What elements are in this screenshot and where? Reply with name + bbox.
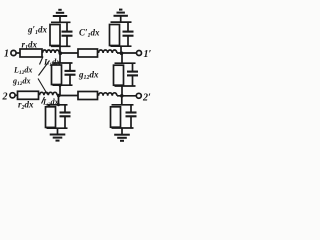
wire stub line2 right node down to shunt bottom-right (121, 96, 123, 105)
shunt block top-right: bottom bar (111, 45, 132, 47)
shunt block top-left: bottom bar (51, 45, 71, 47)
shunt block top-left: top bar (51, 21, 71, 23)
wire line 2 middle (57, 95, 78, 97)
joint dot (59, 84, 62, 87)
wire stub line1 right node down to coupling block right (121, 53, 123, 63)
shunt block bottom-left: top bar (47, 104, 68, 106)
inductor line1 second section (99, 50, 117, 53)
coupling block right: top bar (115, 62, 136, 64)
inductor L1dx (43, 50, 60, 53)
ground bottom-left (50, 128, 66, 140)
resistor r1dx (20, 49, 42, 57)
terminal 2 (10, 93, 18, 98)
resistor r2dx (18, 91, 39, 99)
coupling block right: bottom bar (115, 85, 136, 87)
wire stub to line 1 right node (120, 46, 122, 53)
terminal 2' (136, 93, 141, 98)
svg-text:1: 1 (4, 49, 9, 60)
joint dot (57, 103, 60, 106)
node on line 1 right (120, 51, 124, 55)
svg-text:L2dx: L2dx (42, 98, 59, 109)
resistor line1 second section (78, 49, 98, 57)
resistor g12 (vertical box) (52, 65, 62, 85)
node on line 1 left (59, 51, 63, 55)
terminal 1' (137, 51, 142, 56)
inductor L2dx (40, 92, 58, 95)
shunt block top-right: top bar (111, 21, 132, 23)
capacitor bottom-right (126, 105, 137, 128)
leader slash for L2dx label (42, 97, 45, 104)
wire line 1 middle (60, 52, 79, 54)
ground bottom-right (114, 128, 130, 141)
wire to terminal 1' (117, 52, 137, 54)
resistor line2 second section (78, 92, 98, 100)
svg-text:r1dx: r1dx (22, 40, 38, 52)
inductor line2 second section (99, 93, 117, 96)
resistor bottom-right (vertical box) (111, 107, 121, 127)
wire to terminal 2' (117, 95, 136, 97)
capacitor coupling right (127, 63, 138, 86)
resistor coupling right (vertical box) (114, 65, 124, 85)
node on line 2 right (120, 94, 124, 98)
svg-text:L1dx: L1dx (43, 57, 61, 69)
wire stub line2 node down to shunt bottom-left (58, 96, 60, 105)
shunt block bottom-right: bottom bar (112, 127, 134, 129)
ground top-right (114, 10, 128, 22)
capacitor C2 (60, 105, 71, 128)
leader slash for L1dx label (40, 57, 44, 65)
svg-text:2: 2 (2, 92, 8, 103)
capacitor top-right (123, 22, 134, 46)
wire stub to line 2 (59, 85, 61, 95)
capacitor C1dx (62, 22, 73, 46)
wire stub block to line 1 (59, 46, 61, 53)
svg-text:r2dx: r2dx (18, 100, 34, 112)
resistor top-right (vertical box) (110, 25, 120, 46)
shunt block bottom-right: top bar (112, 104, 134, 106)
coupling block left: bottom bar (53, 84, 73, 86)
coupling block left: top bar (53, 62, 73, 64)
wire stub to line 2 right node (121, 86, 123, 96)
svg-text:g′1dx: g′1dx (27, 25, 48, 37)
resistor g2 (vertical box) (46, 107, 56, 128)
svg-text:1′: 1′ (144, 49, 152, 60)
leader lines for L12dx / g12dx (mutual coupling arrows) (38, 61, 50, 95)
resistor g1dx (vertical box) (50, 25, 60, 46)
svg-text:2′: 2′ (142, 93, 151, 104)
terminal 1 (11, 50, 20, 55)
node on line 2 left (57, 94, 61, 98)
capacitor C12 (65, 63, 76, 85)
shunt block bottom-left: bottom bar (47, 127, 68, 129)
ground top-left (53, 10, 67, 22)
wire stub line1 node down to coupling block left (59, 53, 61, 63)
